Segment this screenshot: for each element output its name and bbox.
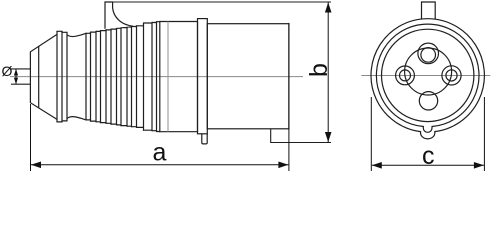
svg-text:b: b [305,63,333,77]
svg-text:c: c [422,142,435,170]
svg-text:Ø: Ø [2,63,13,79]
svg-text:a: a [153,139,167,167]
